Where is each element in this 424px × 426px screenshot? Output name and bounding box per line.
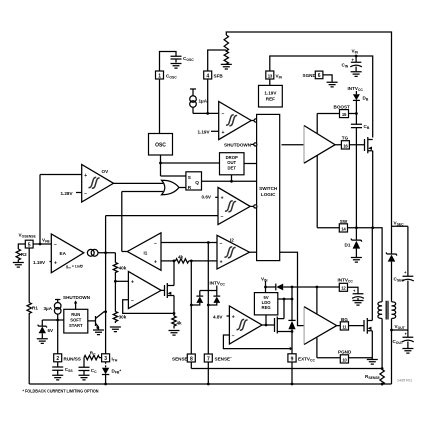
resistor 30k [110, 312, 127, 332]
pin 10 PGND [317, 350, 372, 363]
pin 12 INTVCC [338, 278, 359, 294]
wire SFB node [193, 79, 219, 115]
op-amp EA [33, 234, 84, 273]
svg-text:RUN: RUN [71, 312, 80, 317]
pin 7 SENSE- [204, 354, 232, 384]
diode D1 (Schottky) [345, 228, 362, 262]
svg-text:* FOLDBACK CURRENT LIMITING OP: * FOLDBACK CURRENT LIMITING OPTION [23, 388, 99, 393]
resistor divider top [224, 35, 228, 51]
detector DROP OUT DET box [220, 153, 257, 182]
svg-text:2: 2 [56, 356, 59, 362]
svg-text:EA: EA [60, 251, 67, 256]
svg-text:D1: D1 [345, 243, 351, 248]
svg-text:R1: R1 [32, 306, 38, 311]
svg-text:+: + [222, 130, 225, 136]
node VIN (middle) [261, 276, 268, 292]
comparator C (buffer) [115, 271, 174, 313]
svg-text:BG: BG [341, 317, 348, 322]
comparator I2 [217, 235, 257, 269]
svg-text:5: 5 [28, 242, 31, 248]
comparator OV [40, 165, 163, 203]
wire ITH to B comparator [106, 216, 218, 354]
svg-text:0.6V: 0.6V [202, 195, 212, 200]
op-amp BG driver [304, 287, 337, 358]
wire pin1 to OSC [159, 79, 161, 134]
diode secondary (Schottky) [386, 226, 396, 302]
wire SENSE+ vertical (pin 8) [190, 261, 193, 354]
svg-text:1.28V: 1.28V [61, 191, 74, 196]
svg-text:30k: 30k [119, 315, 127, 320]
svg-text:+: + [131, 280, 134, 286]
svg-text:4k: 4k [177, 321, 183, 326]
svg-text:TG: TG [342, 136, 349, 141]
transistor MOSFET (buffer out) [165, 261, 176, 315]
logic SWITCH LOGIC box [257, 114, 280, 260]
svg-text:RUN/SS: RUN/SS [64, 356, 81, 361]
op-amp I1 [127, 233, 161, 270]
svg-text:−: − [221, 214, 224, 220]
svg-text:PGND: PGND [338, 350, 352, 355]
svg-text:SFB: SFB [214, 74, 224, 79]
node VOUT [390, 324, 408, 384]
reference 1.19V REF box [259, 85, 283, 107]
pin 1 COSC [156, 71, 178, 80]
resistor R1 [27, 248, 38, 384]
comparator 4.8V (EXTVCC) [213, 306, 292, 350]
zener 6V [37, 320, 54, 343]
svg-text:BOOST: BOOST [334, 105, 351, 110]
svg-text:1.19V: 1.19V [33, 260, 46, 265]
svg-text:1.19V: 1.19V [198, 129, 211, 134]
svg-text:−: − [154, 241, 157, 247]
comparator A (SFB) [198, 102, 252, 140]
wire VOUT bottom rail [29, 383, 391, 386]
pin 11 BG [337, 317, 364, 330]
svg-text:START: START [69, 323, 83, 328]
capacitor COSC [160, 52, 195, 72]
svg-text:−: − [232, 334, 235, 340]
wire sense minus line [161, 241, 217, 244]
wire VIN rail [270, 55, 373, 138]
capacitor CSS [52, 362, 73, 380]
diode clamp right [208, 291, 220, 306]
pin 15 BOOST [317, 105, 358, 118]
pin 14 SW [339, 219, 348, 232]
wire RUN/SS node [42, 319, 64, 322]
svg-text:SOFT: SOFT [70, 318, 82, 323]
svg-text:9: 9 [291, 356, 294, 362]
svg-text:+: + [54, 260, 57, 266]
diode DB [353, 91, 369, 124]
ground divider [221, 64, 232, 69]
transistor bottom MOSFET [364, 228, 378, 364]
svg-text:−: − [220, 241, 223, 247]
comparator B (burst) [202, 187, 257, 224]
resistor RSENSE [365, 369, 384, 386]
capacitor CSEC [394, 226, 414, 330]
op-amp TG driver [282, 114, 336, 228]
pin 4 SFB [204, 71, 224, 79]
pin 9 EXTVCC [288, 354, 316, 386]
pin 6 SGND [303, 71, 338, 87]
svg-text:DET: DET [228, 165, 237, 170]
transistor NPN (ITH pulldown) [88, 310, 107, 334]
svg-text:1.19V: 1.19V [264, 91, 277, 96]
node SHUTDOWN (out) [63, 295, 91, 309]
wire pin13 to REF [269, 79, 271, 85]
diode (INTVCC to VIN) [276, 284, 283, 291]
svg-text:3µA: 3µA [44, 306, 53, 311]
capacitor CC [79, 358, 98, 380]
svg-text:8: 8 [190, 356, 193, 362]
gate OR [162, 180, 186, 194]
svg-text:I2: I2 [230, 238, 234, 243]
svg-text:1µA: 1µA [199, 99, 208, 104]
wire sense plus line with 4k [161, 255, 217, 264]
svg-text:SHUTDOWN: SHUTDOWN [63, 295, 91, 300]
resistor RC [84, 351, 102, 360]
transistor P-MOSFET (EXTVCC switch) [275, 298, 294, 334]
svg-text:+: + [221, 196, 224, 202]
wire SENSE+ line [191, 367, 383, 370]
svg-text:−: − [222, 112, 225, 118]
node VFB [33, 175, 51, 246]
svg-text:S: S [188, 175, 191, 180]
pin 8 SENSE+ [172, 354, 195, 369]
current source 1uA [190, 89, 208, 113]
capacitor CIN [342, 56, 362, 76]
block RUN SOFT START [64, 309, 88, 333]
svg-text:6: 6 [318, 73, 321, 79]
resistor 4k (lower) [169, 313, 183, 335]
svg-text:40k: 40k [119, 266, 127, 271]
svg-text:3: 3 [104, 356, 107, 362]
wire LDO output [266, 287, 292, 325]
capacitor COUT [393, 330, 414, 353]
oscillator OSC box [149, 134, 173, 156]
svg-text:I1: I1 [144, 251, 148, 256]
capacitor CB [351, 124, 370, 228]
transistor top MOSFET [365, 137, 373, 228]
resistor divider bottom [224, 50, 228, 64]
svg-text:SHUTDOWN: SHUTDOWN [224, 142, 252, 147]
wire SENSE- vertical (pin 7) [207, 243, 210, 355]
svg-text:REF: REF [266, 97, 275, 102]
svg-text:SWITCH: SWITCH [259, 186, 278, 191]
svg-text:7: 7 [207, 356, 210, 362]
svg-text:OV: OV [102, 169, 110, 174]
svg-text:+: + [154, 259, 157, 265]
diode clamp left [191, 291, 203, 306]
svg-text:R2: R2 [21, 252, 27, 257]
wire OSC to dropout det and latch S [159, 155, 219, 176]
node SHUTDOWN input [224, 142, 257, 147]
regulator 5V LDO REG box [254, 293, 277, 315]
svg-text:1: 1 [158, 73, 161, 79]
wire INTVCC rail [266, 286, 340, 289]
svg-text:+: + [232, 314, 235, 320]
svg-text:−: − [84, 191, 87, 197]
svg-text:SW: SW [340, 219, 348, 224]
diode (P-MOSFET body) [288, 320, 295, 353]
svg-text:OSC: OSC [155, 143, 166, 149]
svg-text:+: + [84, 173, 87, 179]
wire VSEC feedback top rail [226, 32, 391, 226]
diode DFB (foldback, dashed optional) [102, 362, 121, 384]
wire I1 output to OR gate [122, 192, 163, 252]
gm output stage [87, 249, 115, 256]
capacitor INTVCC bypass [352, 289, 364, 306]
node INTVCC (clamp) [200, 281, 226, 291]
svg-text:SGND: SGND [303, 73, 317, 78]
svg-text:1435 F01: 1435 F01 [397, 379, 412, 383]
svg-text:LOGIC: LOGIC [261, 192, 276, 197]
svg-text:−: − [131, 298, 134, 304]
pin 5 VOSENSE [25, 240, 33, 248]
current source 3uA [44, 300, 62, 321]
transformer T1 [378, 301, 396, 369]
wire BG drive from switch logic [280, 252, 304, 325]
wire compA out to switch logic [251, 120, 254, 122]
pin 16 TG [335, 136, 364, 149]
svg-text:Q: Q [195, 180, 199, 185]
pin 13 VIN [266, 71, 283, 80]
node VSEC [392, 221, 408, 227]
svg-text:SENSE−: SENSE− [215, 356, 233, 362]
wire SFB tap [208, 50, 227, 71]
pin 3 ITH [102, 354, 118, 363]
pin 2 RUN/SS [54, 320, 81, 362]
svg-text:6V: 6V [48, 328, 55, 333]
svg-text:4k: 4k [178, 255, 184, 260]
latch S-R [186, 172, 257, 190]
svg-text:4.8V: 4.8V [213, 314, 223, 319]
svg-text:REG: REG [262, 305, 271, 310]
resistor 40k [113, 253, 127, 312]
svg-text:+: + [220, 259, 223, 265]
resistor R2 [13, 244, 27, 267]
svg-text:4: 4 [206, 73, 209, 79]
wire SW [317, 226, 382, 301]
svg-text:−: − [54, 242, 57, 248]
